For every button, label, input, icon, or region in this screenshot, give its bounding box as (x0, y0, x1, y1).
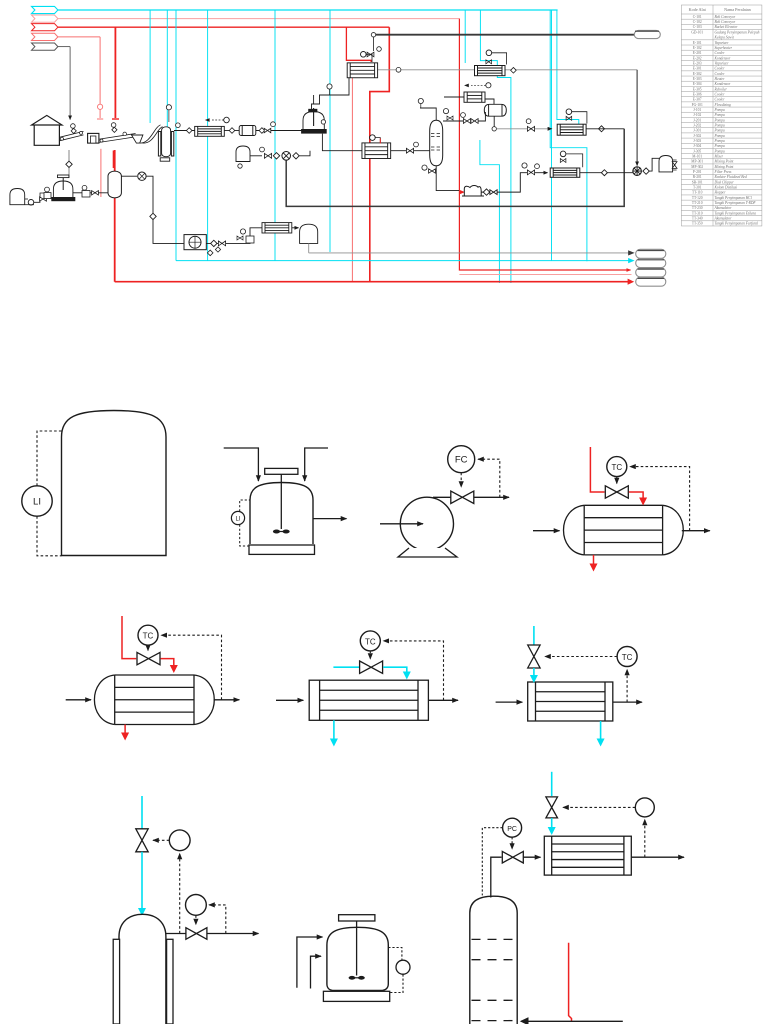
svg-text:LI: LI (235, 517, 240, 523)
heat exchanger E-B4 (564, 505, 684, 555)
cooling water line C3 (533, 626, 535, 645)
wire cyan bottom (176, 260, 632, 262)
steam line red (590, 447, 604, 492)
instrument TC-C1 (138, 625, 158, 645)
svg-text:TT-310: TT-310 (692, 211, 703, 215)
cw into D3 (551, 818, 553, 828)
instrument cluster right of mixer (82, 185, 87, 190)
svg-text:Belt Conveyor: Belt Conveyor (715, 20, 736, 24)
svg-text:TT-230: TT-230 (692, 206, 703, 210)
svg-text:Pompa: Pompa (714, 118, 725, 122)
wire feed to mixer (34, 193, 47, 202)
signal D2 bottom (390, 974, 403, 992)
heat exchanger E-102 (464, 92, 485, 102)
svg-text:Cooler: Cooler (715, 51, 726, 55)
wire to tank TT-340 (292, 227, 299, 229)
svg-text:E-305: E-305 (693, 87, 702, 91)
instrument D2 (396, 960, 410, 974)
condenser outlet D3 (631, 856, 684, 858)
svg-text:Akumulator: Akumulator (714, 206, 733, 210)
svg-text:Nama Peralatan: Nama Peralatan (724, 7, 752, 12)
instrument on E-201 (486, 50, 492, 56)
wire E-305 out (580, 172, 633, 174)
svg-text:TT-120: TT-120 (692, 196, 703, 200)
reactor base (249, 545, 315, 554)
instrument pair mid (240, 229, 245, 234)
svg-text:Flowdizing: Flowdizing (714, 103, 731, 107)
bottom return D3 (521, 1020, 623, 1022)
svg-text:J-301: J-301 (693, 129, 701, 133)
warehouse GD-101 (32, 115, 62, 145)
signal D3 valve (563, 806, 635, 808)
tank small left of MB (236, 146, 250, 162)
svg-text:E-302: E-302 (693, 72, 702, 76)
svg-text:Mixer: Mixer (714, 154, 724, 158)
capsule main top (634, 30, 660, 38)
signal D1 down (179, 854, 181, 934)
wire gray y70 (378, 69, 637, 71)
valve cluster left of MB (264, 153, 271, 158)
svg-text:Disk Chipper: Disk Chipper (714, 180, 735, 184)
disk chipper SR-101 (88, 133, 99, 143)
wire MB up (299, 151, 310, 156)
reactor D2 feed 2 (311, 956, 322, 988)
reactor D2 shaft (356, 921, 358, 976)
svg-text:E-303: E-303 (693, 77, 702, 81)
wire E-303 out (586, 128, 624, 130)
svg-text:E-102: E-102 (693, 46, 702, 50)
svg-text:PC: PC (507, 826, 517, 833)
svg-text:Pompa: Pompa (714, 108, 725, 112)
steam line red out C1 (161, 659, 174, 666)
svg-text:Filter Press: Filter Press (714, 170, 733, 174)
wire cyan weave upper (480, 10, 511, 283)
signal TC to valve (616, 477, 618, 484)
svg-text:SR-101: SR-101 (692, 180, 703, 184)
svg-text:Reboiler: Reboiler (714, 87, 728, 91)
svg-text:Vaporizer: Vaporizer (715, 61, 730, 65)
svg-text:Kondensor: Kondensor (714, 82, 731, 86)
instrument TC-C3 (617, 647, 637, 667)
svg-text:E-101: E-101 (693, 41, 702, 45)
instrument on E-305 (560, 151, 566, 157)
wire cyan weave lower (480, 140, 500, 283)
tank T capsule (108, 171, 121, 198)
pump P with flow control (400, 497, 453, 550)
svg-text:J-303: J-303 (693, 139, 701, 143)
wire cyan elbow x550 (550, 10, 587, 261)
equipment table (681, 5, 762, 226)
heat exchanger E-C1 (94, 675, 214, 725)
E-B4 outlet (682, 530, 710, 532)
wire filter out (206, 228, 262, 244)
column bottoms (436, 166, 460, 191)
tank feed small (10, 189, 25, 205)
cw valve D1 (136, 829, 148, 852)
svg-text:J-304: J-304 (693, 144, 701, 148)
control valve FV (451, 491, 474, 503)
reactor D2 feed 1 (297, 937, 323, 988)
column D1 jacket left (113, 939, 119, 1024)
wire cyan drop x465 (464, 10, 466, 63)
wire gray drop (69, 47, 71, 120)
instrument on C-102 (112, 127, 117, 132)
overhead valve D3 (502, 851, 523, 863)
instrument at elevator (166, 105, 171, 110)
svg-text:FG-101: FG-101 (692, 103, 703, 107)
storage tank with level indicator (62, 411, 167, 556)
signal TC-C3 from outlet (564, 701, 566, 703)
wire flash to column row (443, 112, 485, 121)
svg-text:E-307: E-307 (693, 98, 702, 102)
svg-text:Bucket Elevator: Bucket Elevator (715, 25, 739, 29)
instrument on C-101 (71, 128, 76, 133)
pump support (398, 548, 457, 557)
svg-text:Tangki Penyimpanan HCl: Tangki Penyimpanan HCl (715, 196, 752, 200)
wire gray to mixer (68, 150, 70, 178)
svg-text:Kondensor: Kondensor (714, 56, 731, 60)
steam valve C1 (137, 652, 160, 664)
instrument TC-B4 (607, 457, 627, 477)
mixing point MB (282, 152, 291, 161)
reactor D2 vessel (327, 927, 388, 990)
instrument on E-102 (486, 83, 491, 88)
mixer M-101 (53, 181, 73, 198)
cooling water out C2 (383, 667, 407, 672)
agitator motor (265, 468, 298, 474)
svg-text:MP-302: MP-302 (691, 165, 703, 169)
signal TC-C3 to valve (545, 656, 617, 658)
rotary filter P-201 (184, 235, 206, 250)
wire cyan drop x176 (175, 10, 177, 261)
wire red drop x352 (351, 78, 353, 282)
wire flash bottoms to E-303 (493, 116, 495, 126)
svg-text:T-301: T-301 (693, 186, 702, 190)
cw valve C2 (360, 661, 383, 673)
E-C3 outlet (613, 701, 642, 703)
svg-text:J-201: J-201 (693, 118, 701, 122)
signal D1 valve (153, 839, 169, 841)
svg-text:Vaporizer: Vaporizer (715, 41, 730, 45)
svg-text:Cooler: Cooler (715, 98, 726, 102)
svg-text:Mixing Point: Mixing Point (714, 165, 735, 169)
column D1 jacket right (167, 939, 173, 1024)
svg-text:Tangki Penyimpanan T-RDF: Tangki Penyimpanan T-RDF (715, 201, 757, 205)
svg-text:R-201: R-201 (693, 175, 702, 179)
heat exchanger E-101 (347, 63, 377, 78)
svg-text:Reaktor Fluidized Bed: Reaktor Fluidized Bed (714, 175, 748, 179)
wire cyan drop x208 (207, 10, 209, 261)
instrument PC D3 (503, 818, 522, 837)
E-C3 inlet (496, 701, 523, 703)
svg-text:Belt Conveyor: Belt Conveyor (715, 15, 736, 19)
signal FC loop (478, 459, 500, 497)
instrument FC (448, 446, 475, 473)
wire thick main top (374, 34, 635, 36)
svg-text:TT-210: TT-210 (692, 201, 703, 205)
product capsule 2 (636, 259, 666, 268)
wire red drop x113 lower (113, 151, 115, 169)
svg-text:TT-340: TT-340 (692, 217, 703, 221)
agitator shaft (280, 474, 282, 529)
reactor vessel (250, 483, 313, 545)
pump at tank (121, 175, 137, 177)
product capsule 3 (636, 268, 666, 277)
heat exchanger E-306 (262, 223, 292, 233)
reactor feed line 2 (305, 448, 328, 481)
signal PC to valve (511, 837, 513, 849)
signal line LI-1 (37, 431, 62, 486)
belt conveyor C-101 (60, 131, 84, 140)
pump outlet (433, 496, 509, 498)
heat exchanger E-201 top (475, 66, 506, 76)
instrument LI-2 (231, 511, 244, 524)
wire red elbow hx1 (346, 27, 371, 62)
svg-text:M-101: M-101 (692, 154, 702, 158)
svg-text:TT-350: TT-350 (692, 222, 703, 226)
svg-text:E-306: E-306 (693, 92, 702, 96)
cw outlet bottom C3 (600, 721, 602, 739)
wire cyan mini elbow x557 (557, 10, 579, 124)
rotary drum (239, 126, 256, 136)
wire red drop 1 (114, 27, 116, 118)
svg-text:P-201: P-201 (693, 170, 702, 174)
wire cyan drop x150 (149, 10, 151, 123)
svg-text:E-301: E-301 (693, 67, 702, 71)
svg-text:Pompa: Pompa (714, 144, 725, 148)
signal D1 inst2 loop (209, 905, 226, 934)
tank TT-340 (300, 224, 318, 243)
svg-text:E-304: E-304 (693, 82, 702, 86)
wire red drop x459 (459, 19, 630, 270)
wire cyan drop x275 (274, 10, 276, 261)
svg-text:Cooler: Cooler (715, 67, 726, 71)
stream flag 5 (gray) (32, 43, 58, 50)
tank TT-310 (659, 156, 673, 172)
bucket elevator C-103 (158, 132, 160, 157)
steam line red C1 (122, 616, 136, 659)
instrument on E-A (224, 117, 230, 123)
svg-text:C-101: C-101 (693, 15, 702, 19)
wire drop to mixing point (636, 70, 638, 166)
svg-text:C-102: C-102 (693, 20, 702, 24)
svg-text:Cooler: Cooler (715, 72, 726, 76)
svg-text:TC: TC (611, 463, 622, 472)
svg-text:E-203: E-203 (693, 61, 702, 65)
E-C2 outlet (428, 699, 458, 701)
instrument on E-303 (566, 109, 572, 115)
signal TC-C2 to valve (369, 651, 371, 659)
E-C1 outlet (214, 699, 240, 701)
svg-text:J-102: J-102 (693, 113, 701, 117)
stream flag 3 (red) (32, 24, 58, 31)
svg-text:MP-301: MP-301 (691, 160, 703, 164)
svg-text:Tangki Penyimpanan Etilena: Tangki Penyimpanan Etilena (715, 211, 757, 215)
instrument TIC D1 (169, 830, 190, 851)
svg-text:Pompa: Pompa (714, 113, 725, 117)
svg-text:C-103: C-103 (693, 25, 702, 29)
column D1 outlet (166, 933, 186, 935)
wire cyan header (58, 9, 558, 11)
reflux red D3 (569, 943, 572, 1022)
svg-text:Pompa: Pompa (714, 149, 725, 153)
wire hx to column (391, 150, 430, 152)
svg-text:Cooler: Cooler (715, 92, 726, 96)
signal TC-C1 loop (161, 635, 221, 700)
stream flag 1 (cyan) (32, 6, 58, 13)
svg-text:TC: TC (143, 632, 154, 641)
wire red drop x115 lower (114, 150, 116, 282)
column D1 vessel (119, 914, 166, 1024)
svg-text:LI: LI (33, 497, 41, 508)
wire pink header (58, 18, 460, 20)
wire cyan drop x330 (329, 10, 331, 252)
belt conveyor C-102 (99, 134, 135, 143)
svg-text:TC: TC (365, 637, 376, 646)
cw valve C3 vertical (528, 645, 540, 668)
svg-text:GD-101: GD-101 (691, 30, 703, 34)
instrument on feed (327, 84, 332, 89)
cooling water line D1 (141, 796, 143, 829)
cw outlet bottom C2 (333, 720, 335, 739)
svg-text:FC: FC (455, 455, 468, 466)
wire to tank TT-310 (649, 158, 659, 171)
pump J-202 (464, 186, 481, 196)
wire reactor up (313, 95, 315, 105)
wire pink bottom (459, 274, 631, 276)
wire pink drop (99, 37, 101, 118)
E-C2 inlet (276, 699, 303, 701)
heat exchanger E-C2 (309, 680, 428, 720)
svg-text:Heater: Heater (714, 77, 726, 81)
svg-text:TC: TC (622, 653, 633, 662)
wire red drop x100 lower (100, 149, 102, 197)
heat exchanger E-303 (557, 124, 586, 135)
condenser E-D3 (544, 836, 631, 875)
wire tank line down (146, 176, 184, 243)
overhead to HX D3 (523, 856, 540, 858)
wire pink branch (58, 36, 100, 38)
wire tank TT-340 down (308, 243, 310, 253)
svg-text:Akumulator: Akumulator (714, 217, 733, 221)
stream flag 2 (pink) (32, 15, 58, 22)
column D3 overhead (491, 857, 502, 897)
wire red bottom main (115, 281, 632, 283)
wire recycle loop (286, 129, 624, 207)
column T-301 (430, 120, 443, 166)
svg-text:Mixing Point: Mixing Point (714, 160, 735, 164)
instrument pair (45, 187, 50, 192)
svg-text:Pompa: Pompa (714, 134, 725, 138)
svg-text:J-101: J-101 (693, 108, 701, 112)
outlet valve D1 (186, 928, 207, 940)
wire cyan drop x167 (166, 10, 168, 146)
chute (139, 125, 163, 143)
instrument on E-101 (361, 52, 367, 58)
svg-text:Kelapa Sawit: Kelapa Sawit (714, 35, 735, 39)
cw valve D3 (546, 797, 558, 818)
svg-text:Tangki Penyimpanan Furfural: Tangki Penyimpanan Furfural (715, 222, 759, 226)
svg-text:Gudang Penyimpanan Pelepah: Gudang Penyimpanan Pelepah (715, 30, 760, 34)
svg-text:J-305: J-305 (693, 149, 701, 153)
reactor outlet (313, 518, 347, 520)
signal FC to valve (460, 473, 462, 487)
svg-text:E-202: E-202 (693, 56, 702, 60)
wire gray bottom (309, 252, 632, 254)
vessel flash (484, 104, 506, 116)
condensate red out C1 (124, 725, 126, 734)
heat exchanger E-A conveyor line (195, 126, 225, 136)
E-C1 inlet (66, 699, 91, 701)
pump inlet (380, 523, 423, 525)
wire red header (58, 26, 389, 28)
cooling water into D1 (141, 852, 143, 909)
wire reactor discharge (322, 134, 362, 151)
heat exchanger E-304 mid (362, 143, 391, 159)
instrument TC-C2 (360, 631, 380, 651)
wire pump out (481, 173, 547, 192)
E-B4 inlet (533, 530, 560, 532)
signal line LI-2 (240, 500, 250, 511)
svg-text:J-302: J-302 (693, 134, 701, 138)
instrument LI-1 (22, 486, 52, 516)
steam valve (605, 486, 628, 498)
signal TC-C1 to valve (147, 645, 149, 650)
product capsule 4 (636, 277, 666, 286)
wire reactor feed (312, 78, 350, 111)
hopper TT-110 (132, 135, 143, 143)
wire red drop x389 (370, 27, 390, 282)
signal TC-C2 loop (383, 641, 443, 700)
instrument right D3 (635, 798, 654, 817)
signal D2 top (388, 948, 402, 960)
signal D1 inst2 to valve (195, 915, 197, 924)
mixing point MP-302 (633, 167, 642, 176)
pump J-101 (28, 200, 34, 206)
diamond on gray line (511, 68, 517, 74)
product capsule 1 (636, 249, 666, 258)
reactor R-201 (303, 112, 324, 130)
wire cyan drop x551 (551, 10, 553, 261)
column D3 vessel (470, 896, 517, 1024)
instrument on E-304 (370, 135, 376, 141)
svg-text:Pompa: Pompa (714, 123, 725, 127)
steam line red out (629, 492, 643, 498)
svg-text:Hopper: Hopper (714, 191, 727, 195)
heat exchanger E-C3 (528, 682, 613, 721)
heat exchanger E-305 (550, 168, 580, 177)
cooling water D3 (551, 772, 553, 796)
reactor D2 motor (339, 915, 375, 921)
svg-text:Kolom Distilasi: Kolom Distilasi (714, 186, 738, 190)
reactor feed line 1 (224, 448, 259, 481)
svg-text:Kode Alat: Kode Alat (689, 7, 707, 12)
wire conveyor line (174, 130, 195, 132)
svg-text:TT-110: TT-110 (692, 191, 703, 195)
wire gray branch (58, 46, 70, 48)
svg-text:J-202: J-202 (693, 123, 701, 127)
wire mixer out (73, 192, 82, 194)
wire column top (420, 108, 436, 120)
cooling water line C2 (333, 666, 359, 668)
stream flag 4 (pink) (32, 33, 58, 40)
signal D3 up (644, 820, 646, 858)
condensate red out (593, 555, 595, 564)
svg-text:E-201: E-201 (693, 51, 702, 55)
red arrow into pump (459, 190, 464, 194)
svg-text:Pompa: Pompa (714, 129, 725, 133)
svg-text:Superheater: Superheater (715, 46, 733, 50)
